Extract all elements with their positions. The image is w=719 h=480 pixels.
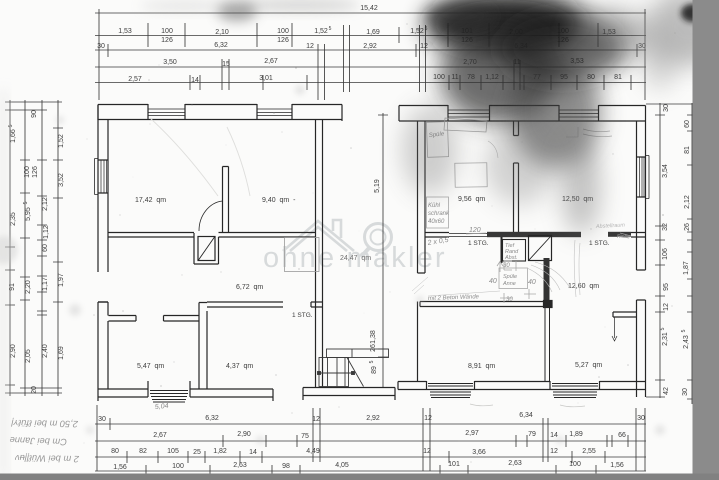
right wing left wall: [418, 121, 426, 381]
svg-text:5,27 qm: 5,27 qm: [575, 362, 602, 369]
dim chain row D: [95, 59, 646, 90]
svg-text:3,54: 3,54: [662, 164, 669, 178]
svg-text:5,47 qm: 5,47 qm: [137, 363, 164, 370]
svg-text:1,97: 1,97: [58, 273, 65, 287]
svg-text:4,05: 4,05: [335, 462, 349, 469]
svg-text:2,20: 2,20: [25, 280, 32, 294]
svg-text:Anne: Anne: [502, 281, 516, 287]
svg-text:1,56: 1,56: [610, 462, 624, 469]
light vertical streak left edge: [0, 90, 7, 480]
right dimension texts (rotated): [660, 104, 691, 396]
top dimension chains: [95, 9, 646, 100]
svg-text:Spüle: Spüle: [503, 274, 517, 280]
svg-text:98: 98: [282, 463, 290, 470]
svg-text:5: 5: [329, 26, 332, 32]
svg-text:14: 14: [249, 449, 257, 456]
svg-text:26: 26: [684, 223, 691, 231]
wall between 5,47 and 4,37: [199, 303, 207, 390]
svg-text:100: 100: [172, 463, 184, 470]
right wing bottom wall with windows: [398, 381, 646, 398]
svg-text:40: 40: [489, 278, 497, 285]
left wing top wall window lines: [148, 109, 292, 116]
svg-text:2,63: 2,63: [233, 462, 247, 469]
svg-text:6,32: 6,32: [205, 415, 219, 422]
svg-text:12: 12: [312, 416, 320, 423]
svg-text:2,10: 2,10: [215, 29, 229, 36]
scan speckle noise: [83, 23, 675, 462]
right wing right wall with window: [637, 121, 650, 397]
svg-text:2,35: 2,35: [10, 212, 17, 226]
svg-text:79: 79: [528, 431, 536, 438]
svg-text:Kühl: Kühl: [428, 203, 441, 209]
svg-text:1,53: 1,53: [118, 28, 132, 35]
right wing wall y232 (dark): [425, 232, 646, 237]
chimney left with X: [194, 233, 219, 264]
svg-text:6,72 qm: 6,72 qm: [236, 284, 263, 291]
svg-text:1,69: 1,69: [366, 29, 380, 36]
svg-text:4,49: 4,49: [306, 448, 320, 455]
svg-text:1,82: 1,82: [213, 448, 227, 455]
svg-text:82: 82: [139, 448, 147, 455]
svg-text:1,52: 1,52: [410, 28, 424, 35]
svg-text:2,92: 2,92: [366, 415, 380, 422]
faint pencil marks room 12,50: [470, 404, 585, 407]
svg-text:30: 30: [97, 43, 105, 50]
svg-text:126: 126: [161, 37, 173, 44]
svg-text:5,19: 5,19: [374, 179, 381, 193]
svg-text:30: 30: [98, 416, 106, 423]
svg-text:105: 105: [167, 448, 179, 455]
svg-text:42: 42: [663, 387, 670, 395]
svg-text:1,89: 1,89: [569, 431, 583, 438]
svg-text:32: 32: [662, 223, 669, 231]
left wing left wall with window: [95, 105, 109, 398]
svg-text:6,32: 6,32: [214, 42, 228, 49]
svg-text:2,57: 2,57: [128, 76, 142, 83]
hall door square (light): [285, 238, 320, 272]
pencil furniture sketches room 9,56: [412, 118, 631, 303]
watermark magnifier: [361, 224, 392, 258]
svg-text:106: 106: [662, 248, 669, 260]
svg-text:91: 91: [9, 283, 16, 291]
svg-text:2,67: 2,67: [153, 432, 167, 439]
handwriting rotated bottom-left: [9, 418, 80, 464]
5,27 room top wall piece: [612, 312, 637, 341]
left wing bottom wall with entrance steps: [98, 381, 273, 402]
interior wall between 9,56 and 12,50: [514, 121, 519, 233]
svg-text:17,42 qm: 17,42 qm: [135, 197, 166, 204]
faint pencil curve room 17,42: [150, 118, 250, 196]
svg-text:40x60: 40x60: [428, 219, 445, 225]
svg-text:2,90: 2,90: [237, 431, 251, 438]
svg-text:1,12: 1,12: [43, 225, 50, 239]
middle stair dimension texts: [369, 179, 381, 374]
svg-text:schrank: schrank: [428, 211, 450, 217]
svg-text:5,95: 5,95: [25, 207, 32, 221]
svg-text:2,43: 2,43: [683, 335, 690, 349]
svg-text:5: 5: [369, 360, 375, 363]
right wing top wall: [399, 105, 646, 121]
dim chain row B: [95, 23, 646, 92]
svg-text:2,92: 2,92: [363, 43, 377, 50]
svg-text:5: 5: [660, 327, 666, 330]
svg-text:30: 30: [663, 104, 670, 112]
svg-text:15,42: 15,42: [360, 5, 378, 12]
interior wall between 17,42 and 9,40 with door arc: [199, 167, 229, 233]
svg-text:3,66: 3,66: [472, 449, 486, 456]
shaft box Tief: [503, 240, 526, 262]
faint paper noise: [0, 85, 665, 444]
svg-text:2,63: 2,63: [508, 460, 522, 467]
right wing top wall window lines: [448, 110, 599, 117]
svg-text:15: 15: [222, 61, 230, 68]
svg-text:95: 95: [663, 283, 670, 291]
svg-text:80: 80: [111, 448, 119, 455]
svg-text:12: 12: [420, 43, 428, 50]
svg-text:12: 12: [550, 448, 558, 455]
svg-text:1,52: 1,52: [58, 134, 65, 148]
svg-text:12,60 qm: 12,60 qm: [568, 283, 599, 290]
svg-text:6,34: 6,34: [519, 412, 533, 419]
handwritten pencil annotations right wing kitchen: [155, 131, 631, 411]
svg-text:26: 26: [370, 344, 377, 352]
svg-text:30: 30: [682, 388, 689, 396]
svg-text:14: 14: [191, 77, 199, 84]
svg-text:30: 30: [637, 415, 645, 422]
svg-text:126: 126: [32, 166, 39, 178]
svg-text:101: 101: [448, 461, 460, 468]
svg-text:100: 100: [161, 28, 173, 35]
wall above 8,91 room: [420, 301, 552, 308]
shaft box with X: [502, 236, 552, 264]
bottom scanner bar: [0, 474, 719, 480]
svg-text:1,87: 1,87: [683, 261, 690, 275]
svg-text:9,56 qm: 9,56 qm: [458, 196, 485, 203]
wall between stair area and 12,60 (dark): [544, 258, 550, 305]
top dimension texts: [97, 5, 646, 84]
svg-text:100: 100: [277, 28, 289, 35]
svg-text:81: 81: [684, 146, 691, 154]
left wing top wall: [98, 104, 342, 121]
right scanner strip: [693, 0, 719, 480]
svg-text:24,47 qm: 24,47 qm: [340, 255, 371, 262]
svg-text:20: 20: [31, 386, 38, 394]
svg-text:90: 90: [31, 110, 38, 118]
svg-text:2,31: 2,31: [662, 332, 669, 346]
svg-text:100: 100: [24, 166, 31, 178]
svg-text:Abst.: Abst.: [504, 255, 518, 261]
svg-text:12: 12: [306, 43, 314, 50]
right dimension chains: [646, 103, 697, 404]
svg-text:5: 5: [8, 124, 14, 127]
svg-text:66: 66: [618, 432, 626, 439]
svg-text:3,50: 3,50: [163, 59, 177, 66]
svg-text:81: 81: [614, 74, 622, 81]
middle section bottom wall: [303, 388, 395, 401]
svg-text:5: 5: [681, 329, 687, 332]
left wing right wall: [316, 120, 323, 389]
svg-text:3,52: 3,52: [58, 173, 65, 187]
svg-text:1,66: 1,66: [10, 129, 17, 143]
svg-text:5,04: 5,04: [155, 403, 169, 411]
left dimension chains: [5, 100, 63, 396]
svg-text:8,91 qm: 8,91 qm: [468, 363, 495, 370]
left dimension texts (rotated): [8, 110, 65, 394]
svg-text:2,97: 2,97: [465, 430, 479, 437]
partition between 8,91 and 5,27: [545, 308, 550, 382]
svg-text:1 STG.: 1 STG.: [292, 312, 313, 319]
svg-text:2,50 m bei ℓfüℓʏļ: 2,50 m bei ℓfüℓʏļ: [10, 418, 79, 429]
svg-text:3,01: 3,01: [259, 75, 273, 82]
svg-text:100: 100: [569, 461, 581, 468]
svg-text:4,37 qm: 4,37 qm: [226, 363, 253, 370]
stairs left wing: [318, 349, 389, 387]
middle stair dimension line: [378, 113, 388, 387]
interior wall below rooms (y232): [108, 233, 316, 238]
svg-text:12: 12: [663, 303, 670, 311]
svg-text:60: 60: [684, 120, 691, 128]
svg-text:40: 40: [528, 279, 536, 286]
svg-text:Cm bei Janne: Cm bei Janne: [9, 435, 67, 447]
svg-text:25: 25: [193, 449, 201, 456]
dim chain row E: [95, 75, 646, 90]
scan smudge top right corner: [642, 0, 719, 90]
svg-text:2,90: 2,90: [10, 344, 17, 358]
dim line 15,42: [95, 9, 646, 100]
faint streak top left: [140, 0, 230, 12]
svg-text:1 STG.: 1 STG.: [468, 240, 489, 247]
svg-text:2,67: 2,67: [264, 58, 278, 65]
svg-text:2,55: 2,55: [582, 448, 596, 455]
svg-text:1,17: 1,17: [42, 277, 49, 291]
svg-text:1,56: 1,56: [113, 464, 127, 471]
svg-text:5: 5: [23, 201, 29, 204]
svg-text:2,05: 2,05: [25, 349, 32, 363]
svg-text:1,69: 1,69: [58, 346, 65, 360]
bottom dimension chains: [95, 405, 646, 477]
svg-text:60: 60: [42, 244, 49, 252]
svg-text:89: 89: [371, 366, 378, 374]
watermark ohne makler logo house: [283, 220, 354, 251]
svg-text:75: 75: [301, 433, 309, 440]
dim chain row C: [95, 44, 646, 100]
svg-text:1 STG.: 1 STG.: [589, 240, 610, 247]
svg-text:2,40: 2,40: [42, 344, 49, 358]
svg-text:1,38: 1,38: [370, 330, 377, 344]
svg-text:2,12: 2,12: [684, 195, 691, 209]
svg-text:126: 126: [277, 37, 289, 44]
svg-text:2 m bei Wüℓļļʉν: 2 m bei Wüℓļļʉν: [15, 453, 80, 464]
svg-text:12: 12: [424, 415, 432, 422]
svg-text:9,40 qm -: 9,40 qm -: [262, 197, 296, 204]
svg-text:1,52: 1,52: [314, 28, 328, 35]
bottom dimension texts: [98, 412, 645, 471]
svg-text:12: 12: [423, 448, 431, 455]
entry area walls y302: [98, 302, 323, 321]
svg-text:2,12: 2,12: [42, 197, 49, 211]
scan smudges top: [217, 0, 652, 235]
room labels: [135, 196, 610, 370]
